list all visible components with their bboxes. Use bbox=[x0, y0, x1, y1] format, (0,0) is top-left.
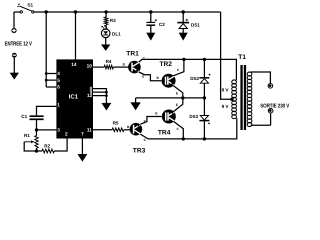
node R1 bottom bbox=[35, 149, 38, 152]
wire top +12V rail bbox=[14, 11, 20, 13]
wire pin 3 bbox=[37, 129, 57, 131]
R1 wiper arrow bbox=[24, 141, 31, 143]
transistor TR1 bbox=[128, 61, 141, 74]
svg-text:DS3: DS3 bbox=[189, 114, 198, 119]
node A (rail to pins 4-5-6) bbox=[45, 10, 48, 13]
node TR4 collector bbox=[182, 137, 185, 140]
ground pin 7 bbox=[78, 154, 87, 161]
resistor R2 bbox=[42, 149, 54, 153]
diode DS2 bbox=[203, 59, 205, 77]
svg-text:IC1: IC1 bbox=[69, 94, 79, 101]
wires pins 8 9 12 bbox=[93, 89, 106, 104]
op-amp/oscillator IC U1 (IC1) body bbox=[56, 59, 93, 138]
svg-text:ENTREE 12 V: ENTREE 12 V bbox=[5, 41, 32, 48]
svg-text:T1: T1 bbox=[238, 54, 246, 61]
node TR2 collector bbox=[182, 58, 185, 61]
wire TR4 emitter bbox=[174, 98, 183, 112]
svg-text:B: B bbox=[157, 76, 160, 80]
ground C2 bbox=[147, 33, 155, 40]
svg-text:9 V: 9 V bbox=[222, 87, 230, 92]
wire R1 to R2 bbox=[37, 148, 42, 151]
svg-text:DS1: DS1 bbox=[191, 23, 200, 28]
diode DS3 bbox=[203, 98, 205, 116]
svg-text:TR1: TR1 bbox=[126, 50, 139, 57]
svg-text:C2: C2 bbox=[159, 22, 165, 27]
wire minus to ground bbox=[13, 58, 15, 74]
wire R4 to TR1 base bbox=[113, 66, 128, 68]
terminal + ENTREE bbox=[13, 12, 15, 28]
svg-text:14: 14 bbox=[71, 62, 77, 67]
wire pin 1 to C1 bbox=[37, 106, 57, 115]
wire TR4 collector bbox=[174, 121, 184, 138]
wire pins 4,5,6 bus bbox=[46, 12, 56, 87]
svg-text:B: B bbox=[123, 62, 126, 66]
svg-text:3: 3 bbox=[57, 128, 60, 133]
wire TR1 emitter to TR2 base bbox=[139, 72, 162, 81]
svg-text:C: C bbox=[177, 127, 180, 131]
node DS3 bottom bbox=[203, 137, 206, 140]
svg-text:R2: R2 bbox=[44, 144, 50, 149]
transistor TR4 bbox=[162, 110, 176, 124]
node pin5 bbox=[45, 79, 48, 82]
node pin3 / R1 top bbox=[35, 128, 38, 131]
svg-text:E: E bbox=[176, 92, 178, 96]
svg-text:10: 10 bbox=[87, 64, 93, 69]
svg-text:1: 1 bbox=[57, 102, 60, 107]
wire C1 to node R1 bbox=[36, 120, 38, 136]
svg-text:C: C bbox=[144, 138, 147, 142]
node C (rail to R3) bbox=[104, 10, 107, 13]
svg-text:11: 11 bbox=[87, 128, 92, 133]
svg-text:4: 4 bbox=[57, 71, 60, 76]
svg-text:R3: R3 bbox=[110, 18, 116, 23]
wire R3 to DL1 bbox=[105, 25, 107, 29]
svg-text:B: B bbox=[127, 125, 130, 129]
capacitor C1 bbox=[30, 115, 44, 117]
node pin4 bbox=[45, 72, 48, 75]
svg-text:SORTIE 230 V: SORTIE 230 V bbox=[260, 103, 289, 109]
svg-text:9 V: 9 V bbox=[222, 104, 230, 109]
wire to mid ground bbox=[135, 98, 137, 103]
T1 primary coil bbox=[232, 80, 237, 84]
svg-text:R1: R1 bbox=[24, 133, 30, 138]
wire TR3 collector to rail bbox=[140, 134, 148, 139]
svg-text:12: 12 bbox=[87, 93, 93, 98]
wire TR1 collector to rail bbox=[139, 59, 142, 62]
ground DS1 bbox=[179, 33, 187, 40]
resistor R4 bbox=[93, 66, 104, 68]
svg-text:S1: S1 bbox=[27, 2, 33, 7]
LED DL1 bbox=[101, 29, 110, 38]
node pin9 bbox=[105, 91, 108, 94]
svg-text:DS2: DS2 bbox=[190, 76, 199, 81]
capacitor C2 bbox=[150, 12, 152, 22]
wire pin 7 to ground bbox=[81, 139, 83, 155]
terminal sortie bottom bbox=[268, 108, 273, 113]
trimmer R1 bbox=[35, 136, 38, 148]
transistor TR3 bbox=[130, 123, 143, 136]
ground entree bbox=[10, 73, 19, 79]
wire secondary bottom to terminal bbox=[251, 113, 271, 125]
node E (rail to DS1) bbox=[182, 10, 185, 13]
resistor R5 bbox=[93, 129, 112, 131]
svg-text:TR2: TR2 bbox=[160, 61, 173, 68]
wire collector rail top bbox=[142, 59, 237, 80]
svg-text:E: E bbox=[176, 103, 178, 107]
node DS2-DS3 ground bbox=[203, 96, 206, 99]
wire TR2 emitter bbox=[173, 86, 183, 98]
terminal - entree bbox=[12, 53, 17, 58]
svg-text:C1: C1 bbox=[21, 114, 27, 119]
wire ground emitters bbox=[136, 97, 205, 99]
svg-text:TR4: TR4 bbox=[158, 130, 171, 137]
node centre tap bbox=[230, 98, 233, 101]
wire R5 to TR3 base bbox=[124, 129, 130, 131]
diode DS1 bbox=[182, 12, 184, 22]
transistor TR2 bbox=[162, 74, 176, 88]
svg-text:C: C bbox=[177, 68, 180, 72]
svg-text:7: 7 bbox=[81, 131, 84, 136]
wire DL1 to ground bbox=[105, 38, 107, 45]
svg-text:R5: R5 bbox=[113, 121, 119, 126]
node B (rail to pin 14) bbox=[74, 10, 77, 13]
svg-text:R4: R4 bbox=[106, 59, 112, 64]
ground emitters bbox=[131, 103, 141, 111]
T1 core bbox=[240, 65, 242, 130]
wire TR2 collector bbox=[173, 59, 184, 75]
svg-text:B: B bbox=[155, 112, 158, 116]
ground DL1 bbox=[101, 45, 110, 51]
switch S1 bbox=[20, 11, 22, 13]
wire wiper to bottom bbox=[24, 142, 36, 151]
node pin12 bbox=[105, 94, 108, 97]
T1 secondary coil bbox=[247, 72, 252, 76]
node emitters TR2-TR4 bbox=[181, 96, 184, 99]
wire pin 14 bbox=[75, 12, 77, 59]
svg-text:5: 5 bbox=[57, 78, 60, 83]
ground pins 8-9-12 bbox=[102, 103, 111, 110]
svg-text:2: 2 bbox=[65, 131, 68, 136]
node DS2 top bbox=[203, 58, 206, 61]
wire R2 to pin 2 bbox=[54, 139, 67, 152]
wire TR3 emitter to TR4 base bbox=[140, 117, 161, 125]
wire collector rail bottom bbox=[148, 118, 237, 139]
wire secondary top to terminal bbox=[251, 72, 271, 83]
svg-text:DL1: DL1 bbox=[112, 31, 121, 36]
svg-text:TR3: TR3 bbox=[133, 148, 146, 155]
svg-text:6: 6 bbox=[57, 85, 60, 90]
svg-text:E: E bbox=[142, 75, 144, 79]
resistor R3 bbox=[105, 12, 107, 17]
wire +12V to transformer centre tap bbox=[221, 12, 232, 99]
node D (rail to C2) bbox=[149, 10, 152, 13]
terminal sortie top bbox=[268, 84, 273, 89]
